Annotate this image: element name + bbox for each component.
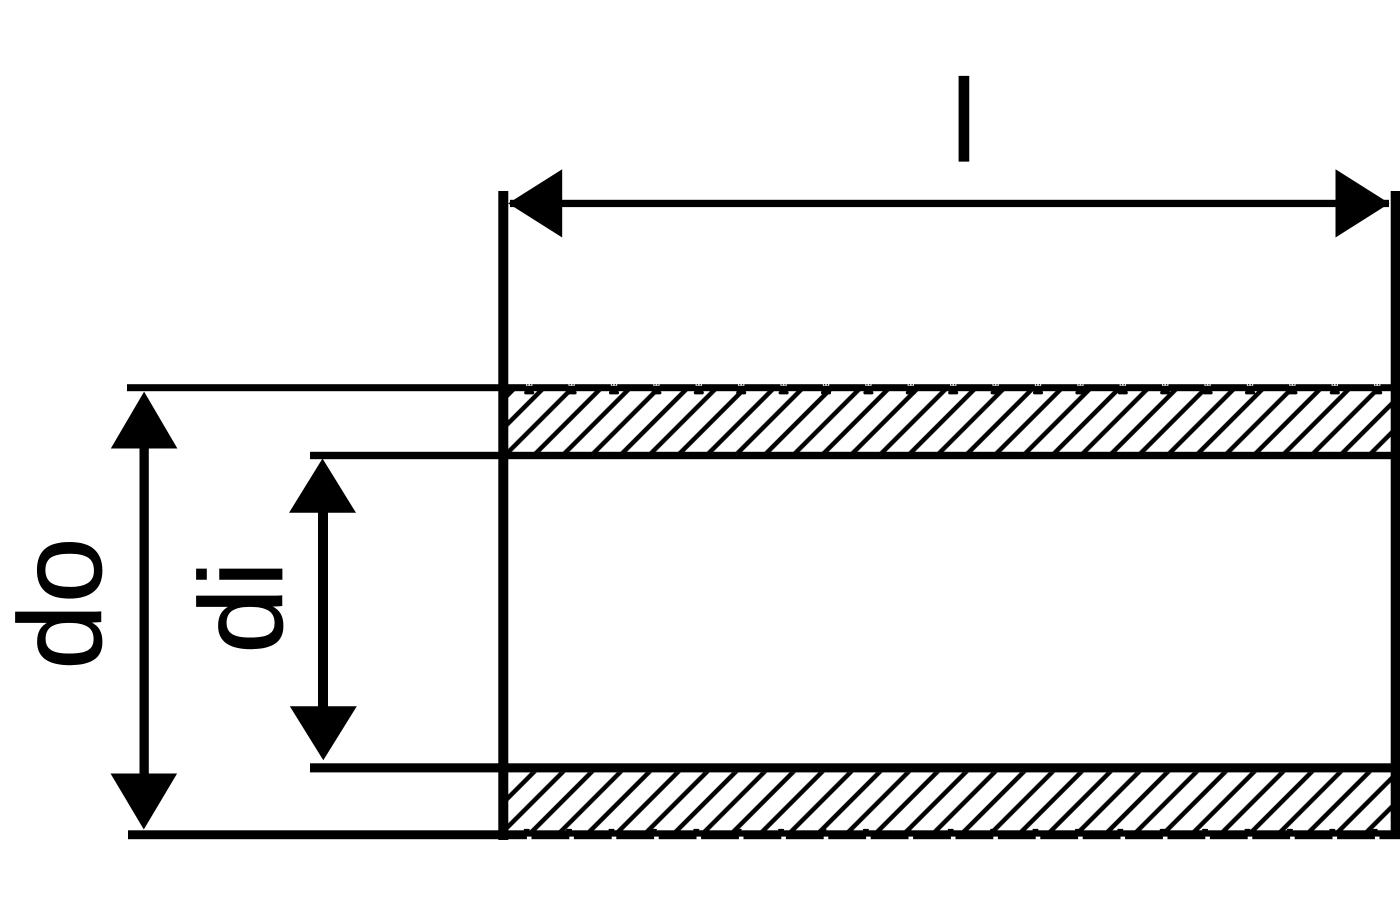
svg-text:di: di bbox=[176, 560, 308, 654]
svg-text:do: do bbox=[0, 537, 127, 670]
svg-text:l: l bbox=[951, 56, 977, 188]
